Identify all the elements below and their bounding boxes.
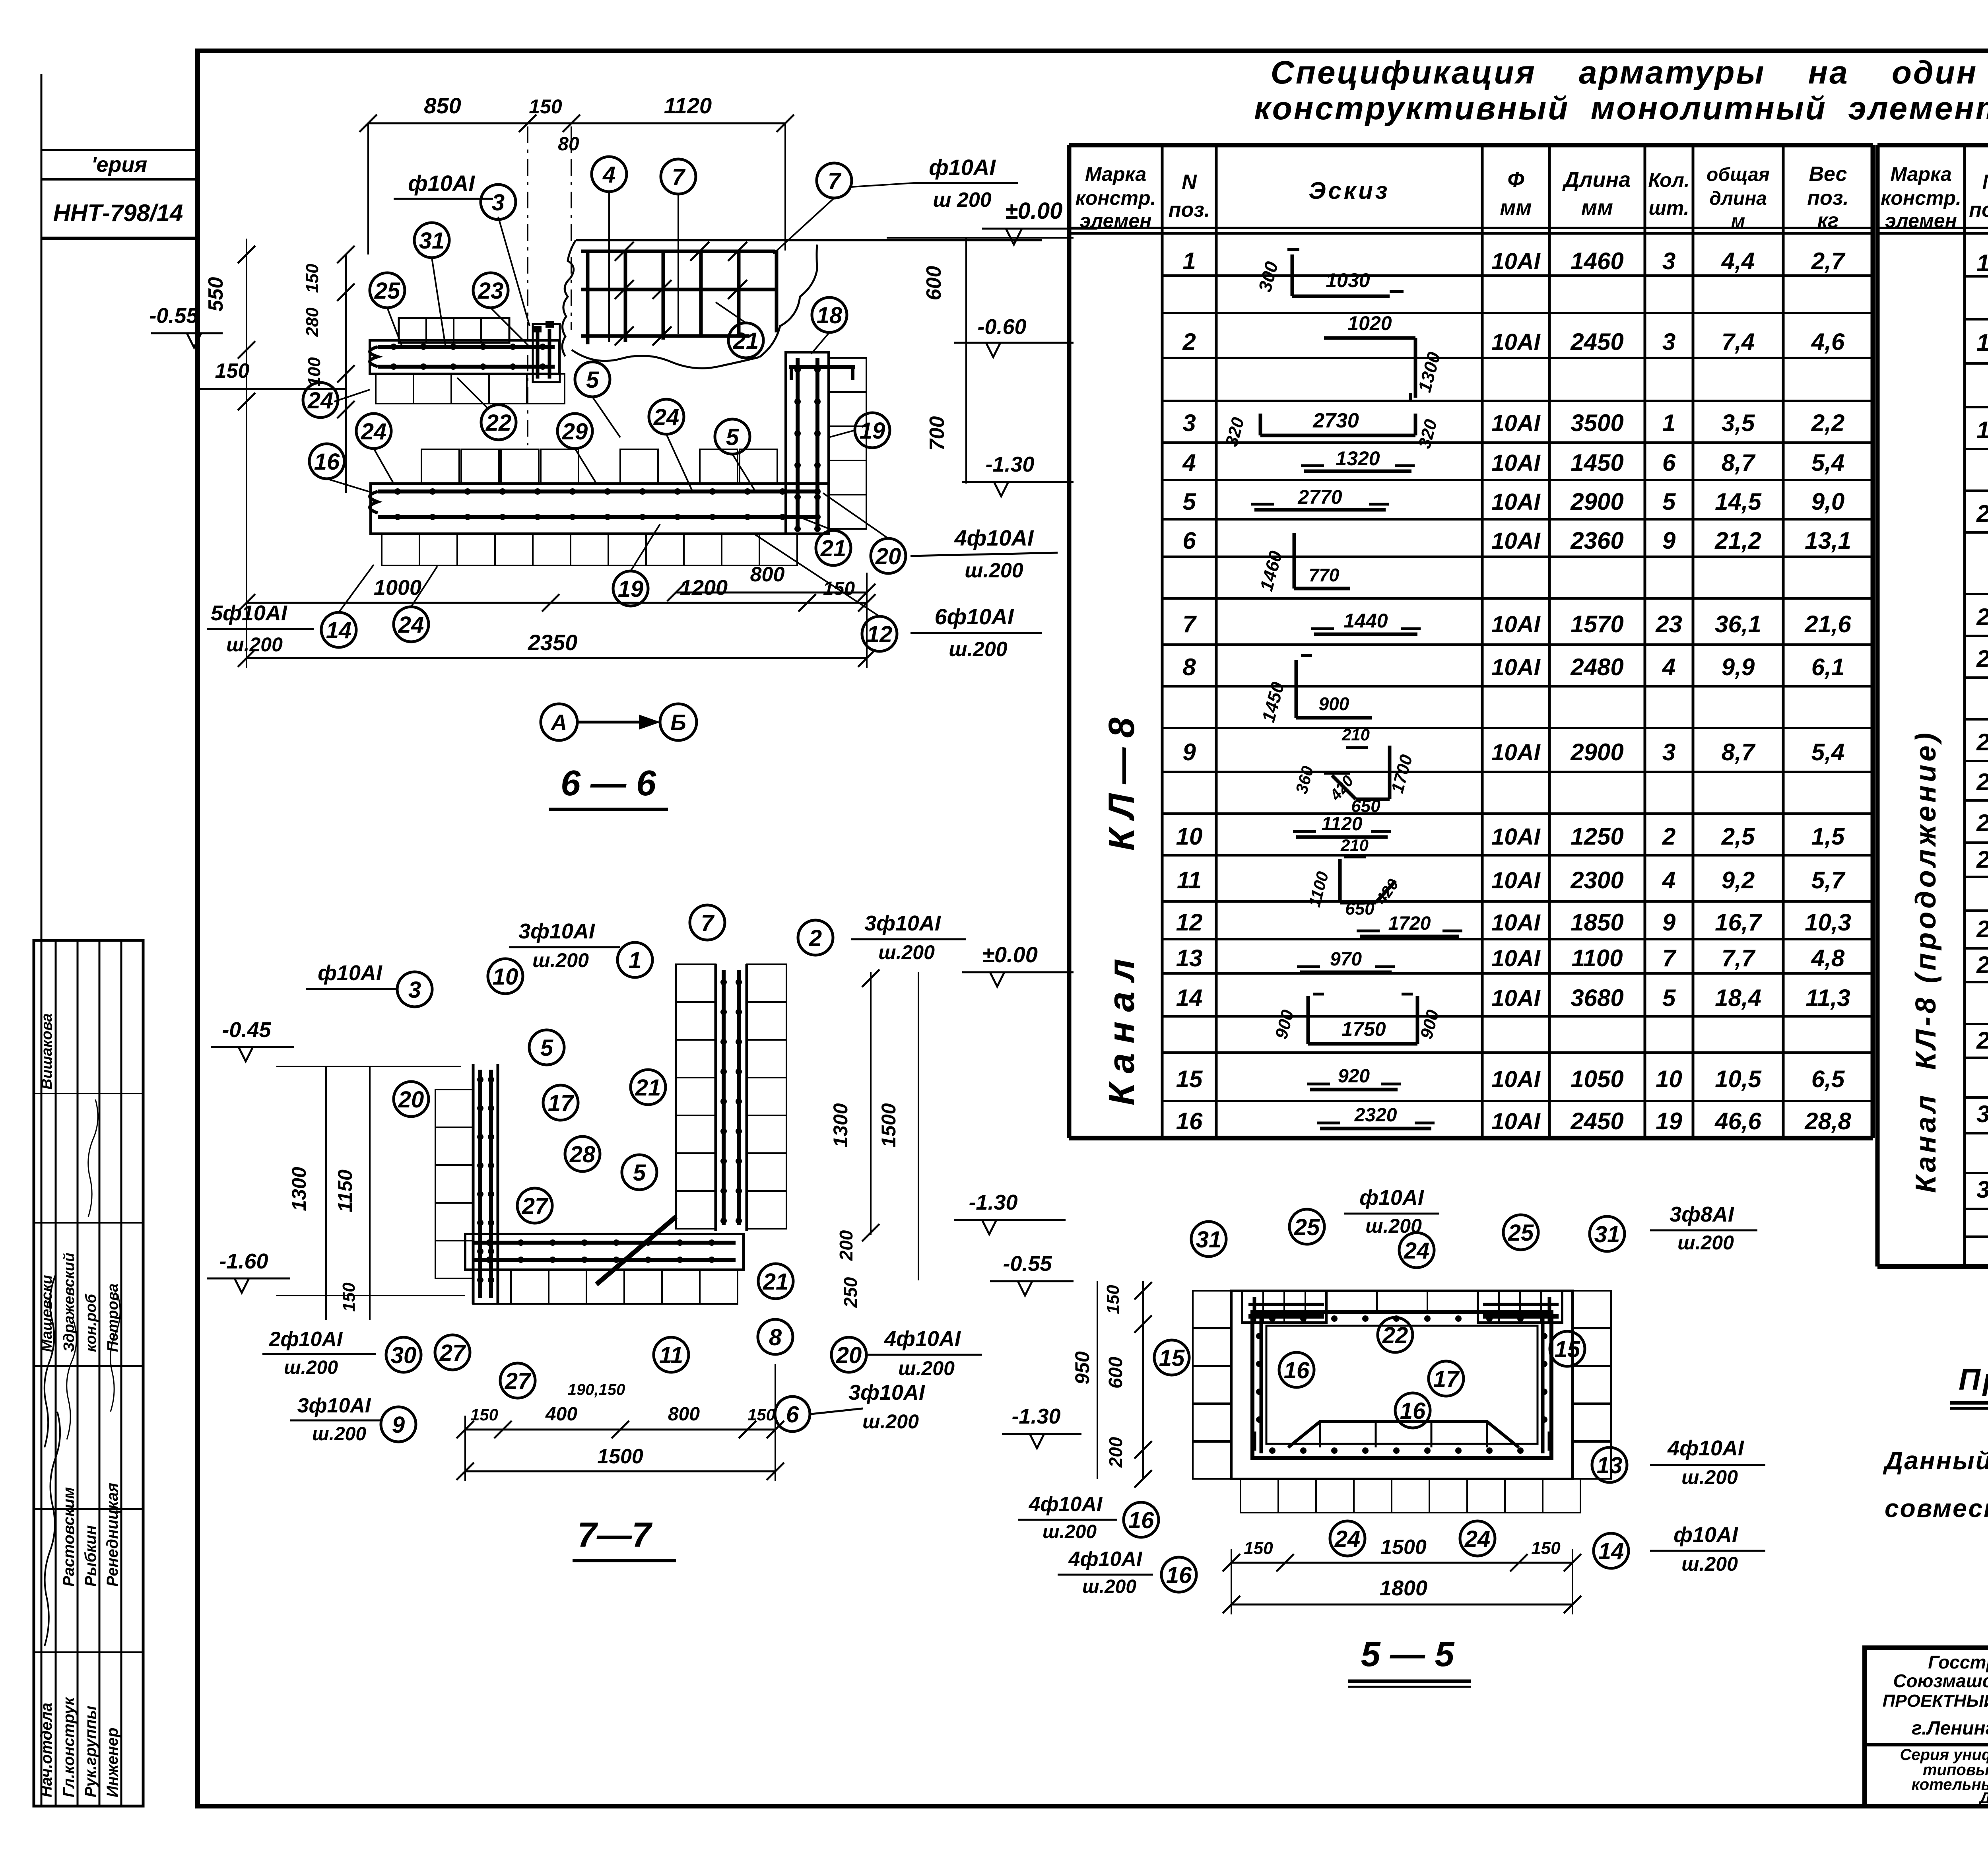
svg-text:4ф10AI: 4ф10AI [884, 1327, 961, 1351]
svg-text:1450: 1450 [1571, 449, 1623, 476]
svg-text:3ф10AI: 3ф10AI [297, 1394, 371, 1417]
svg-text:18,4: 18,4 [1715, 985, 1761, 1011]
svg-text:1800: 1800 [1380, 1576, 1427, 1600]
svg-text:ш.200: ш.200 [878, 941, 935, 963]
svg-text:4ф10AI: 4ф10AI [954, 525, 1034, 550]
svg-text:Рыбкин: Рыбкин [82, 1525, 99, 1587]
svg-text:11: 11 [659, 1342, 683, 1368]
svg-text:1200: 1200 [680, 576, 728, 600]
svg-text:ДКВР.: ДКВР. [1978, 1789, 1988, 1807]
svg-text:констр.: констр. [1881, 187, 1961, 209]
svg-text:мм: мм [1500, 196, 1532, 219]
svg-text:ш 200: ш 200 [933, 188, 992, 212]
svg-text:850: 850 [424, 93, 461, 118]
svg-text:20: 20 [836, 1342, 862, 1368]
svg-text:21: 21 [733, 328, 759, 354]
svg-text:ш.200: ш.200 [532, 949, 589, 971]
svg-text:17: 17 [1976, 250, 1988, 276]
svg-text:кг: кг [1817, 209, 1839, 232]
6-6 top dimension chain [368, 122, 785, 124]
svg-text:ш.200: ш.200 [965, 559, 1023, 582]
svg-text:3ф10AI: 3ф10AI [848, 1381, 925, 1404]
svg-text:4ф10AI: 4ф10AI [1667, 1436, 1744, 1460]
svg-text:4: 4 [1182, 449, 1196, 476]
svg-text:Рук.группы: Рук.группы [82, 1706, 99, 1797]
svg-text:16,7: 16,7 [1715, 909, 1762, 936]
svg-text:5,7: 5,7 [1811, 867, 1846, 894]
svg-text:21: 21 [820, 536, 846, 561]
svg-text:3ф8AI: 3ф8AI [1670, 1202, 1734, 1226]
sketch pos4 [1304, 470, 1411, 473]
svg-text:20: 20 [398, 1087, 424, 1113]
svg-text:9,0: 9,0 [1811, 488, 1844, 515]
svg-text:Растовским: Растовским [60, 1487, 78, 1587]
svg-text:210: 210 [1340, 836, 1369, 855]
svg-text:80: 80 [558, 134, 579, 155]
sketch pos14 [1307, 996, 1310, 1044]
svg-text:700: 700 [926, 416, 949, 451]
svg-text:5,4: 5,4 [1811, 739, 1844, 765]
svg-text:ш.200: ш.200 [898, 1357, 955, 1379]
6-6 bottom dimension chains [247, 602, 867, 604]
svg-text:элемен: элемен [1885, 210, 1957, 232]
svg-text:650: 650 [1351, 796, 1380, 816]
svg-text:5,4: 5,4 [1811, 449, 1844, 476]
svg-text:кон.роб: кон.роб [83, 1294, 99, 1352]
svg-text:5: 5 [540, 1035, 553, 1061]
svg-text:констр.: констр. [1076, 187, 1156, 209]
svg-text:36,1: 36,1 [1715, 611, 1761, 637]
svg-text:шт.: шт. [1648, 197, 1689, 219]
sketch pos9 [1346, 746, 1368, 749]
svg-text:Марка: Марка [1890, 163, 1951, 185]
svg-text:конструктивный монолитный эл: конструктивный монолитный элемент [1254, 90, 1988, 126]
svg-text:10AI: 10AI [1491, 489, 1541, 515]
svg-text:21: 21 [763, 1269, 789, 1295]
svg-text:ННТ-798/14: ННТ-798/14 [53, 200, 183, 226]
6-6 axis A-B marker [541, 704, 577, 740]
svg-text:150: 150 [747, 1405, 775, 1424]
svg-text:16: 16 [1284, 1358, 1310, 1383]
svg-text:Марка: Марка [1085, 163, 1146, 185]
svg-text:2,7: 2,7 [1811, 248, 1846, 274]
svg-text:1120: 1120 [1321, 814, 1363, 835]
svg-text:1320: 1320 [1336, 447, 1380, 470]
spec table left half grid [1069, 143, 1873, 148]
svg-text:Машевски: Машевски [39, 1275, 55, 1352]
svg-text:2: 2 [1182, 328, 1196, 355]
svg-text:2: 2 [809, 925, 822, 951]
svg-text:200: 200 [1105, 1437, 1126, 1468]
svg-text:N: N [1182, 171, 1197, 194]
svg-text:23: 23 [1976, 729, 1988, 756]
6-6 right wall with rebar [789, 365, 855, 369]
svg-text:А: А [550, 710, 567, 735]
svg-text:24: 24 [307, 388, 334, 414]
svg-text:12: 12 [867, 622, 893, 647]
svg-text:30: 30 [1976, 1101, 1988, 1127]
svg-text:10AI: 10AI [1491, 450, 1541, 476]
svg-text:1: 1 [1662, 410, 1675, 436]
svg-text:1: 1 [1182, 248, 1196, 274]
7-7 diagonal bar 11 [596, 1217, 676, 1284]
svg-text:7—7: 7—7 [577, 1515, 653, 1554]
svg-text:ПРОЕКТНЫЙ ИНСТИТУТ N1: ПРОЕКТНЫЙ ИНСТИТУТ N1 [1883, 1690, 1988, 1711]
svg-text:22: 22 [1976, 645, 1988, 672]
svg-text:250: 250 [840, 1277, 861, 1308]
svg-text:1720: 1720 [1388, 913, 1431, 934]
svg-text:2300: 2300 [1570, 867, 1623, 894]
svg-text:-0.45: -0.45 [222, 1018, 271, 1042]
svg-text:400: 400 [545, 1404, 577, 1425]
svg-text:9,9: 9,9 [1722, 654, 1755, 680]
svg-text:4,6: 4,6 [1811, 328, 1845, 355]
svg-text:-1.30: -1.30 [985, 453, 1034, 476]
svg-text:г.Ленинград 1967г: г.Ленинград 1967г [1912, 1718, 1988, 1739]
svg-text:Длина: Длина [1562, 168, 1631, 192]
svg-text:1440: 1440 [1343, 610, 1388, 632]
svg-text:28,8: 28,8 [1804, 1108, 1851, 1134]
svg-text:10AI: 10AI [1491, 655, 1541, 680]
svg-text:7: 7 [701, 910, 715, 936]
svg-text:Госстрой СССР: Госстрой СССР [1928, 1652, 1988, 1672]
svg-text:котельных с котлами: котельных с котлами [1911, 1776, 1988, 1793]
svg-text:970: 970 [1330, 949, 1362, 970]
sketch pos2 [1324, 336, 1415, 340]
svg-text:2,2: 2,2 [1811, 410, 1844, 436]
svg-text:2900: 2900 [1570, 488, 1623, 515]
svg-text:11,3: 11,3 [1806, 985, 1850, 1011]
svg-text:8,7: 8,7 [1722, 449, 1756, 476]
svg-text:длина: длина [1709, 188, 1767, 209]
svg-text:150: 150 [470, 1405, 498, 1424]
svg-text:29: 29 [1976, 1027, 1988, 1054]
svg-text:2900: 2900 [1570, 739, 1623, 765]
svg-text:Примечания: Примечания [1959, 1363, 1988, 1397]
svg-text:26: 26 [1976, 846, 1988, 873]
svg-text:10AI: 10AI [1491, 868, 1541, 894]
sketch pos15 [1310, 1088, 1398, 1092]
svg-text:10AI: 10AI [1491, 946, 1541, 971]
svg-text:1750: 1750 [1342, 1018, 1386, 1040]
svg-text:18: 18 [817, 303, 843, 328]
svg-text:21,2: 21,2 [1714, 527, 1761, 554]
svg-text:13: 13 [1597, 1453, 1623, 1478]
svg-text:14: 14 [1598, 1538, 1624, 1564]
svg-text:Здражевский: Здражевский [61, 1253, 78, 1352]
svg-text:ш.200: ш.200 [1082, 1576, 1136, 1597]
7-7 left wall with rebar [472, 1064, 475, 1304]
svg-text:Спецификация арматуры на: Спецификация арматуры на один [1271, 54, 1978, 91]
svg-text:ш.200: ш.200 [284, 1357, 338, 1378]
svg-text:-1.30: -1.30 [1011, 1404, 1060, 1428]
svg-text:150: 150 [303, 264, 322, 293]
svg-text:Б: Б [670, 710, 686, 735]
svg-text:3ф10AI: 3ф10AI [518, 919, 595, 943]
svg-text:общая: общая [1706, 164, 1770, 185]
svg-text:6: 6 [1662, 449, 1676, 476]
svg-text:2ф10AI: 2ф10AI [269, 1328, 343, 1351]
svg-text:16: 16 [1176, 1108, 1203, 1134]
svg-text:5 — 5: 5 — 5 [1361, 1634, 1455, 1674]
svg-text:1300: 1300 [288, 1167, 310, 1211]
svg-text:1: 1 [629, 948, 641, 973]
svg-text:6: 6 [786, 1402, 799, 1428]
svg-text:27: 27 [439, 1340, 466, 1366]
svg-text:600: 600 [1105, 1357, 1126, 1389]
7-7 right wall with rebar [714, 964, 717, 1231]
svg-text:16: 16 [1166, 1562, 1192, 1588]
svg-text:3: 3 [492, 190, 505, 216]
svg-text:280: 280 [303, 307, 322, 337]
svg-text:10AI: 10AI [1491, 329, 1541, 355]
svg-text:6ф10AI: 6ф10AI [935, 604, 1014, 629]
svg-text:15: 15 [1159, 1345, 1185, 1371]
svg-text:-0.60: -0.60 [977, 315, 1026, 339]
title block [1865, 1648, 1988, 1806]
svg-text:19: 19 [618, 576, 644, 602]
svg-text:ш.200: ш.200 [949, 638, 1008, 661]
svg-text:5: 5 [1662, 488, 1676, 515]
svg-text:ф10AI: ф10AI [929, 155, 996, 180]
svg-text:14,5: 14,5 [1715, 488, 1762, 515]
7-7 bottom dimension chains [465, 1429, 775, 1431]
svg-text:2450: 2450 [1570, 328, 1623, 355]
svg-text:-0.55: -0.55 [149, 304, 198, 328]
svg-text:8: 8 [1182, 654, 1196, 680]
sketch pos12 [1360, 935, 1459, 938]
sketch pos11 [1344, 856, 1366, 859]
svg-text:21,6: 21,6 [1804, 611, 1851, 637]
svg-text:1460: 1460 [1571, 248, 1623, 274]
svg-text:12: 12 [1176, 909, 1203, 936]
6-6 rebar mesh [581, 250, 777, 344]
svg-text:13,1: 13,1 [1805, 527, 1851, 554]
svg-text:9: 9 [1182, 739, 1196, 765]
svg-text:4: 4 [602, 162, 615, 188]
svg-text:3: 3 [1662, 248, 1675, 274]
sketch pos16 [1320, 1127, 1431, 1130]
svg-text:25: 25 [1294, 1214, 1320, 1240]
svg-text:1500: 1500 [597, 1445, 643, 1468]
svg-text:24: 24 [398, 612, 424, 638]
svg-text:5: 5 [1662, 985, 1676, 1011]
svg-text:7,4: 7,4 [1722, 328, 1755, 355]
svg-text:10: 10 [1656, 1066, 1682, 1092]
svg-text:920: 920 [1338, 1066, 1370, 1087]
svg-text:Союзмашстройпроект: Союзмашстройпроект [1893, 1670, 1988, 1691]
svg-text:10AI: 10AI [1491, 1066, 1541, 1092]
svg-text:ф10AI: ф10AI [318, 961, 382, 985]
svg-text:3: 3 [1662, 328, 1675, 355]
svg-text:10: 10 [493, 964, 518, 990]
svg-text:19: 19 [860, 418, 885, 444]
svg-text:2480: 2480 [1570, 654, 1623, 680]
6-6 upper slab with rebar [399, 318, 509, 343]
5-5 bent bar 16 [1288, 1422, 1519, 1447]
svg-text:1570: 1570 [1571, 611, 1623, 637]
svg-text:9: 9 [1662, 527, 1676, 554]
5-5 channel box with rebar [1231, 1291, 1573, 1479]
svg-text:3500: 3500 [1571, 410, 1623, 436]
svg-text:20: 20 [1976, 500, 1988, 527]
spec table right half grid [1877, 143, 1988, 148]
svg-text:2450: 2450 [1570, 1108, 1623, 1134]
svg-text:31: 31 [419, 228, 445, 254]
svg-text:27: 27 [1976, 916, 1988, 942]
svg-text:2360: 2360 [1570, 527, 1623, 554]
svg-text:19: 19 [1656, 1108, 1682, 1134]
svg-text:9: 9 [1662, 909, 1676, 936]
svg-text:24: 24 [361, 419, 387, 445]
svg-text:N: N [1982, 171, 1988, 194]
svg-text:800: 800 [668, 1404, 700, 1425]
svg-text:1120: 1120 [664, 93, 712, 118]
svg-text:25: 25 [374, 278, 400, 304]
svg-text:Инженер: Инженер [104, 1728, 121, 1797]
svg-text:ф10AI: ф10AI [1673, 1523, 1738, 1547]
svg-text:'ерия: 'ерия [91, 153, 148, 177]
svg-text:5: 5 [633, 1160, 646, 1186]
sketch pos7 [1314, 633, 1417, 636]
svg-text:10AI: 10AI [1491, 740, 1541, 765]
svg-text:Гл.конструк: Гл.конструк [60, 1697, 78, 1797]
svg-text:3680: 3680 [1571, 985, 1623, 1011]
svg-text:м: м [1731, 211, 1745, 232]
svg-text:1000: 1000 [374, 576, 421, 600]
svg-text:Канал КЛ-8 (продолжение): Канал КЛ-8 (продолжение) [1910, 730, 1942, 1193]
svg-text:150: 150 [529, 95, 562, 118]
svg-text:Ренедницкая: Ренедницкая [104, 1483, 121, 1587]
svg-text:150: 150 [339, 1282, 359, 1312]
svg-text:1250: 1250 [1571, 823, 1623, 850]
svg-text:3: 3 [1182, 410, 1196, 436]
svg-text:6,5: 6,5 [1811, 1066, 1845, 1092]
sketch pos5 [1254, 508, 1386, 512]
svg-text:3: 3 [408, 977, 421, 1003]
svg-text:5: 5 [586, 367, 599, 393]
svg-text:1500: 1500 [1380, 1536, 1427, 1559]
svg-text:21: 21 [635, 1075, 661, 1101]
svg-text:ш.200: ш.200 [226, 633, 283, 656]
svg-text:29: 29 [562, 419, 588, 445]
svg-text:27: 27 [522, 1193, 549, 1219]
svg-text:900: 900 [1319, 693, 1349, 714]
svg-text:4,8: 4,8 [1811, 945, 1845, 971]
svg-text:4: 4 [1662, 867, 1675, 894]
svg-text:9,2: 9,2 [1722, 867, 1755, 894]
svg-text:4: 4 [1662, 654, 1675, 680]
table halves divider double line [1871, 145, 1874, 1138]
sketch pos13 [1300, 971, 1392, 974]
svg-text:770: 770 [1309, 565, 1340, 585]
svg-text:24: 24 [1334, 1526, 1361, 1552]
svg-text:3: 3 [1662, 739, 1675, 765]
svg-text:950: 950 [1071, 1351, 1093, 1385]
svg-text:1300: 1300 [829, 1103, 852, 1147]
svg-text:Кол.: Кол. [1648, 169, 1689, 191]
svg-text:совместно с листом Кже-25.: совместно с листом Кже-25. [1885, 1494, 1988, 1523]
svg-text:15: 15 [1555, 1336, 1580, 1362]
svg-text:10,5: 10,5 [1715, 1066, 1762, 1092]
svg-text:6,1: 6,1 [1811, 654, 1844, 680]
svg-text:10AI: 10AI [1491, 612, 1541, 637]
svg-text:Вес: Вес [1809, 163, 1847, 186]
svg-text:25: 25 [1976, 810, 1988, 836]
svg-text:2,5: 2,5 [1721, 823, 1755, 850]
svg-text:20: 20 [875, 544, 901, 569]
svg-text:-1.60: -1.60 [219, 1249, 268, 1273]
svg-text:10,3: 10,3 [1805, 909, 1851, 936]
svg-text:10AI: 10AI [1491, 985, 1541, 1011]
svg-text:2320: 2320 [1354, 1105, 1397, 1126]
sketch pos6 [1293, 533, 1296, 589]
signature block (rotated side table) [34, 940, 143, 1806]
svg-text:11: 11 [1177, 867, 1202, 894]
sketch pos3 [1259, 414, 1262, 435]
svg-text:-1.30: -1.30 [969, 1191, 1017, 1214]
svg-text:ш.200: ш.200 [1681, 1466, 1738, 1488]
svg-text:9: 9 [392, 1412, 405, 1438]
svg-text:200: 200 [836, 1230, 856, 1261]
svg-text:28: 28 [1976, 952, 1988, 978]
svg-text:6 — 6: 6 — 6 [561, 763, 656, 803]
svg-text:ш.200: ш.200 [1043, 1521, 1097, 1542]
svg-text:±0.00: ±0.00 [982, 942, 1038, 967]
svg-text:15: 15 [1176, 1066, 1203, 1092]
sketch pos8 [1295, 660, 1298, 718]
svg-text:24: 24 [653, 404, 679, 430]
svg-text:23: 23 [478, 278, 504, 304]
series label box [41, 149, 198, 151]
svg-text:23: 23 [1655, 611, 1682, 637]
svg-text:4,4: 4,4 [1721, 248, 1755, 274]
5-5 dimension chains [1231, 1562, 1573, 1564]
svg-text:5ф10AI: 5ф10AI [211, 601, 287, 625]
svg-text:4ф10AI: 4ф10AI [1029, 1493, 1103, 1516]
svg-text:Вишакова: Вишакова [39, 1013, 55, 1090]
svg-text:10AI: 10AI [1491, 249, 1541, 274]
svg-text:5: 5 [726, 424, 739, 450]
svg-text:поз.: поз. [1969, 198, 1988, 221]
svg-text:25: 25 [1508, 1220, 1534, 1246]
svg-text:1050: 1050 [1571, 1066, 1623, 1092]
svg-text:10AI: 10AI [1491, 910, 1541, 936]
svg-text:2770: 2770 [1297, 486, 1342, 508]
svg-text:28: 28 [569, 1142, 596, 1167]
svg-text:10AI: 10AI [1491, 824, 1541, 850]
left trim line [41, 74, 43, 1806]
svg-text:ф10AI: ф10AI [408, 171, 475, 196]
svg-text:7: 7 [1182, 611, 1197, 637]
svg-text:3ф10AI: 3ф10AI [864, 911, 941, 935]
svg-text:4ф10AI: 4ф10AI [1068, 1548, 1143, 1571]
svg-text:14: 14 [1176, 985, 1203, 1011]
svg-text:1,5: 1,5 [1811, 823, 1845, 850]
svg-text:31: 31 [1196, 1227, 1222, 1253]
svg-text:18: 18 [1976, 329, 1988, 356]
svg-text:2730: 2730 [1312, 409, 1359, 432]
svg-text:17: 17 [1433, 1366, 1460, 1392]
svg-text:16: 16 [1128, 1507, 1154, 1533]
svg-text:17: 17 [548, 1090, 575, 1116]
svg-text:3,5: 3,5 [1722, 410, 1755, 436]
svg-text:±0.00: ±0.00 [1005, 198, 1063, 224]
svg-text:150: 150 [215, 359, 250, 383]
svg-text:150: 150 [1531, 1538, 1561, 1558]
svg-text:7,7: 7,7 [1722, 945, 1756, 971]
svg-text:1020: 1020 [1347, 312, 1392, 334]
